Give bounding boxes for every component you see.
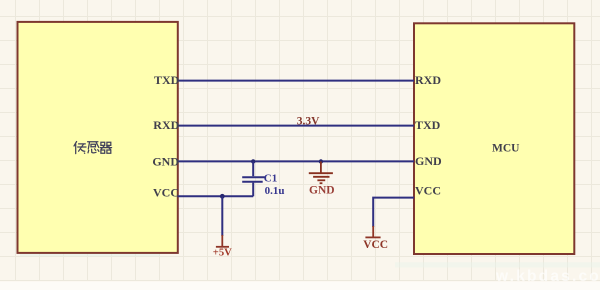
svg-text:C1: C1 — [264, 172, 277, 184]
wire MCU VCC — [373, 198, 414, 227]
wire VCC (sensor side, +5V net) — [178, 195, 254, 197]
svg-text:GND: GND — [415, 154, 442, 168]
junction: C1 to GND wire — [251, 159, 255, 163]
svg-text:3.3V: 3.3V — [297, 115, 320, 127]
svg-text:GND: GND — [152, 154, 179, 168]
svg-text:w.kbdas.com: w.kbdas.com — [495, 268, 600, 285]
ground symbol — [309, 162, 333, 184]
svg-text:TXD: TXD — [154, 73, 180, 87]
power symbol +5V — [216, 196, 229, 247]
power symbol VCC — [365, 226, 380, 237]
svg-text:+5V: +5V — [213, 248, 232, 259]
svg-text:MCU: MCU — [492, 142, 520, 154]
MCU block (sheet symbol) — [414, 23, 574, 254]
label 传感器 (sensor, drawn glyphs) — [74, 142, 112, 154]
svg-text:RXD: RXD — [415, 73, 441, 87]
wire GND net — [178, 160, 415, 162]
capacitor C1 — [242, 161, 264, 196]
svg-text:VCC: VCC — [153, 186, 179, 200]
junction: ground symbol to GND wire — [319, 159, 323, 163]
wire TXD (sensor) to RXD (MCU) — [178, 80, 415, 82]
svg-text:VCC: VCC — [415, 184, 441, 198]
svg-text:GND: GND — [309, 185, 335, 197]
svg-text:RXD: RXD — [153, 118, 179, 132]
svg-text:TXD: TXD — [415, 118, 441, 132]
svg-text:VCC: VCC — [363, 239, 388, 251]
svg-text:0.1u: 0.1u — [265, 185, 285, 197]
junction: +5V drop on VCC wire — [220, 194, 225, 199]
wire RXD (sensor) to TXD (MCU), net 3.3V — [178, 125, 415, 127]
sensor block (sheet symbol 传感器) — [18, 22, 178, 253]
